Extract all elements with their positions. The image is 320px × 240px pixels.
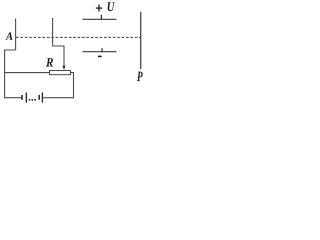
label R — [46, 58, 53, 67]
label P — [137, 72, 143, 81]
wire left rail to resistor — [4, 72, 49, 74]
right accelerating plate — [52, 18, 54, 46]
resistor R box — [50, 71, 71, 75]
wire resistor to right rail — [71, 73, 74, 99]
battery cell 1 long plate — [25, 92, 27, 102]
label U — [108, 2, 115, 11]
battery cell 2 short plate — [38, 95, 40, 100]
left accelerating plate — [15, 19, 17, 51]
wire right plate to slider — [53, 46, 64, 67]
top plate lead tick — [100, 15, 102, 19]
bottom rail left wire — [4, 97, 22, 99]
top deflecting plate — [83, 18, 117, 20]
battery cell 2 long plate — [41, 92, 43, 102]
bottom rail right wire — [42, 97, 74, 99]
label plus — [96, 5, 102, 12]
bottom deflecting plate — [83, 51, 117, 53]
node A — [5, 32, 12, 40]
slider arrowhead — [62, 66, 65, 70]
battery ellipsis dots — [29, 99, 36, 101]
screen P line — [140, 12, 142, 69]
label minus — [98, 55, 102, 57]
beam axis dashed line — [16, 36, 140, 38]
wire left plate to battery — [5, 50, 16, 98]
bottom plate lead tick — [101, 48, 103, 52]
battery cell 1 short plate — [21, 95, 23, 100]
